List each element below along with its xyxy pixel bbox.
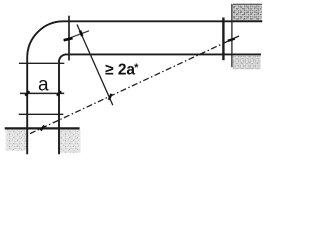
dash-dot axis line bbox=[30, 36, 239, 134]
joint line B on vertical pipe bbox=[20, 92, 64, 94]
tick on axis at wall bbox=[228, 39, 235, 41]
tick on axis mid bbox=[109, 94, 112, 100]
svg-text:≥ 2a*: ≥ 2a* bbox=[105, 62, 139, 79]
tick 1 bold on oblique extension bbox=[64, 38, 73, 40]
joint line A on vertical pipe bbox=[19, 62, 64, 64]
oblique extension through elbow joint bbox=[63, 31, 89, 41]
wall hatch top-right bbox=[233, 4, 262, 21]
joint line C on vertical pipe bbox=[19, 113, 64, 115]
floor line bbox=[5, 127, 80, 129]
tick 2 bold on leader at crossing bbox=[80, 31, 82, 36]
pipe outer contour (left vertical, outer elbow arc, top run) bbox=[27, 21, 262, 154]
extension line at elbow bbox=[68, 16, 70, 61]
wall hatch below pipe bbox=[233, 55, 261, 69]
pipe inner contour (right vertical, inner elbow arc, bottom run) bbox=[59, 54, 261, 154]
joint line near wall bbox=[222, 18, 224, 61]
wall hatch top border bbox=[233, 3, 262, 5]
tick on axis at floor bbox=[41, 126, 45, 131]
floor hatch left bbox=[6, 130, 27, 151]
tick on line B right bbox=[57, 91, 61, 95]
tick on line B left bbox=[25, 91, 29, 95]
svg-text:a: a bbox=[38, 74, 49, 95]
floor hatch right bbox=[60, 130, 80, 153]
leader line to text bbox=[77, 25, 113, 106]
wall face line bbox=[231, 4, 233, 67]
